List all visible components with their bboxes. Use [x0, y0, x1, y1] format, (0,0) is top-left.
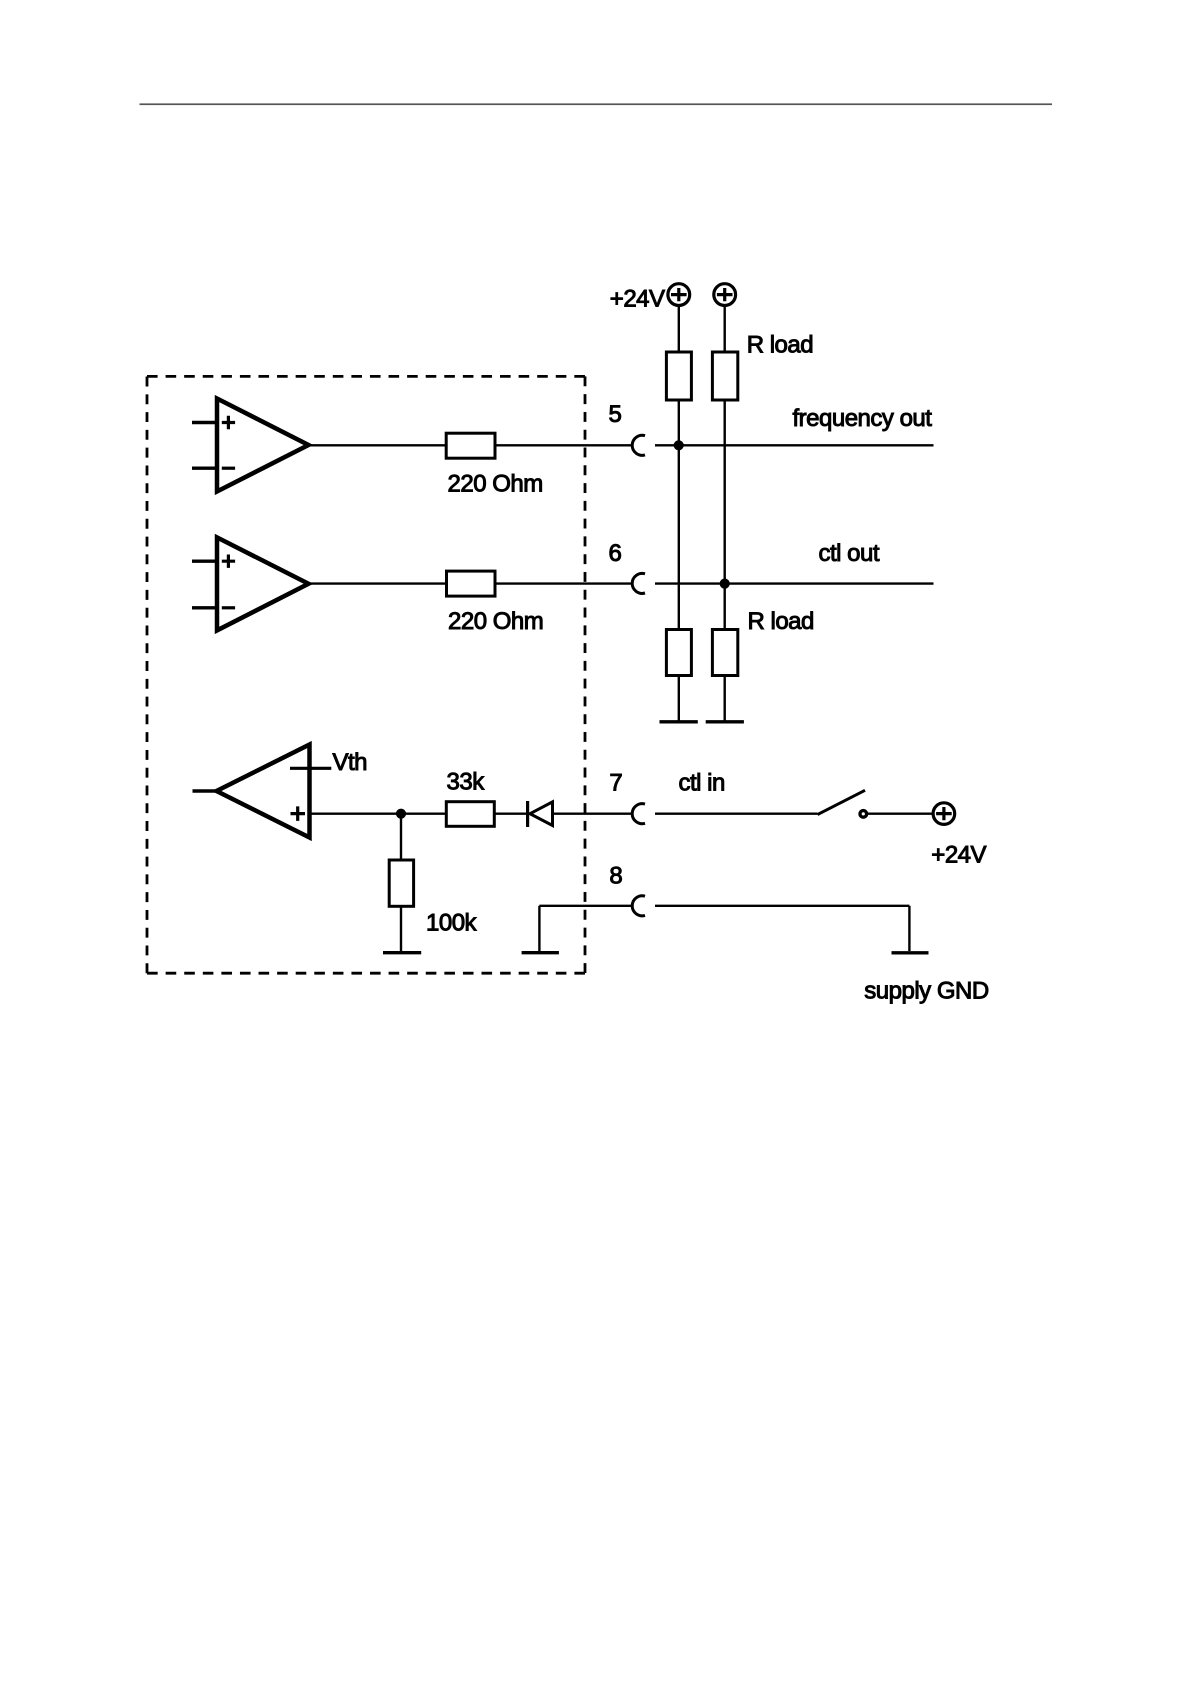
- ground bar (100k): [383, 951, 421, 954]
- svg-text:ctl out: ctl out: [819, 540, 880, 567]
- U2 plus sign: [222, 555, 235, 568]
- page header rule: [140, 103, 1053, 105]
- wire 100k to ground: [400, 906, 402, 951]
- wire resistor to pin 5: [495, 444, 632, 446]
- svg-text:100k: 100k: [426, 910, 478, 937]
- op-amp U2: [217, 537, 309, 630]
- svg-text:8: 8: [609, 862, 622, 889]
- dashed box (internal circuit boundary): [147, 375, 585, 378]
- wire node to 100k: [400, 814, 402, 860]
- switch S1 blade: [818, 790, 866, 814]
- wire ctl in: [655, 813, 818, 815]
- wire U1 output: [309, 444, 447, 446]
- svg-text:6: 6: [609, 540, 622, 567]
- wire B1 to R load top: [678, 306, 680, 352]
- wire U3 + input: [310, 813, 447, 815]
- wire U2 output: [309, 582, 447, 584]
- diode D1 triangle: [530, 802, 553, 826]
- U3 plus sign: [291, 806, 306, 821]
- svg-text:frequency out: frequency out: [793, 405, 933, 432]
- svg-text:R load: R load: [747, 332, 813, 359]
- svg-text:+24V: +24V: [610, 286, 665, 313]
- svg-text:220 Ohm: 220 Ohm: [448, 471, 543, 498]
- wire bottom left resistor to rail: [678, 676, 680, 721]
- svg-text:220 Ohm: 220 Ohm: [448, 608, 543, 635]
- wire resistor to pin 6: [495, 582, 632, 584]
- svg-text:7: 7: [609, 770, 622, 797]
- wire right dropper: [724, 400, 726, 630]
- svg-text:ctl in: ctl in: [679, 770, 725, 797]
- wire bottom right resistor to rail: [724, 676, 726, 721]
- ground bar (internal): [522, 951, 559, 954]
- svg-text:33k: 33k: [447, 769, 486, 796]
- wire internal ground drop: [538, 906, 540, 951]
- U2 minus sign: [222, 606, 235, 609]
- U1 + input stub: [192, 421, 217, 424]
- op-amp U1: [217, 399, 309, 492]
- U2 - input stub: [192, 606, 217, 609]
- ground rail (left): [660, 720, 698, 723]
- resistor 220 Ohm (lower): [447, 571, 496, 596]
- supply terminal circle B2: [714, 284, 736, 306]
- U2 + input stub: [192, 560, 217, 563]
- wire pin 8 internal: [539, 905, 632, 907]
- ground bar (supply GND): [892, 951, 929, 954]
- wire 33k to diode: [494, 813, 526, 815]
- svg-text:supply GND: supply GND: [864, 978, 989, 1005]
- resistor R load (top left): [666, 352, 691, 400]
- U1 minus sign: [222, 467, 235, 470]
- wire ctl out: [655, 582, 934, 584]
- comparator U3: [217, 745, 310, 838]
- U3 minus input stub: [290, 767, 331, 770]
- wire left dropper: [678, 400, 680, 630]
- resistor 220 Ohm (upper): [446, 433, 495, 458]
- resistor 100k: [389, 860, 413, 906]
- U1 plus sign: [222, 416, 235, 429]
- svg-text:+24V: +24V: [931, 842, 986, 869]
- diode D1 cathode bar: [526, 801, 529, 827]
- wire diode to pin 7: [553, 813, 633, 815]
- wire U3 output (left): [193, 789, 217, 792]
- pin 6 connector arc: [632, 573, 645, 593]
- wire switch to +24V: [868, 813, 932, 815]
- pin 7 connector arc: [632, 804, 645, 824]
- ground rail (right): [706, 720, 744, 723]
- pin 8 connector arc: [632, 896, 645, 916]
- resistor R load (top right): [712, 352, 737, 400]
- supply terminal circle B1: [668, 284, 690, 306]
- svg-text:R load: R load: [748, 608, 814, 635]
- svg-text:Vth: Vth: [333, 749, 368, 776]
- wire frequency out: [655, 444, 934, 446]
- U1 - input stub: [192, 467, 217, 470]
- node junction dot (ctl line / right load): [720, 579, 729, 588]
- wire supply GND drop: [908, 906, 910, 951]
- wire B2 to R load top: [724, 306, 726, 352]
- svg-text:5: 5: [609, 401, 622, 428]
- resistor R load (bottom left): [666, 630, 691, 676]
- switch S1 contact: [860, 811, 867, 818]
- node junction dot (freq line / left load): [674, 441, 683, 450]
- wire pin 8 external: [655, 905, 909, 907]
- pin 5 connector arc: [632, 435, 645, 455]
- supply terminal circle (+24V right): [933, 803, 955, 825]
- node junction dot (divider node): [396, 809, 405, 818]
- resistor 33k: [446, 802, 494, 827]
- resistor R load (bottom right): [712, 630, 737, 676]
